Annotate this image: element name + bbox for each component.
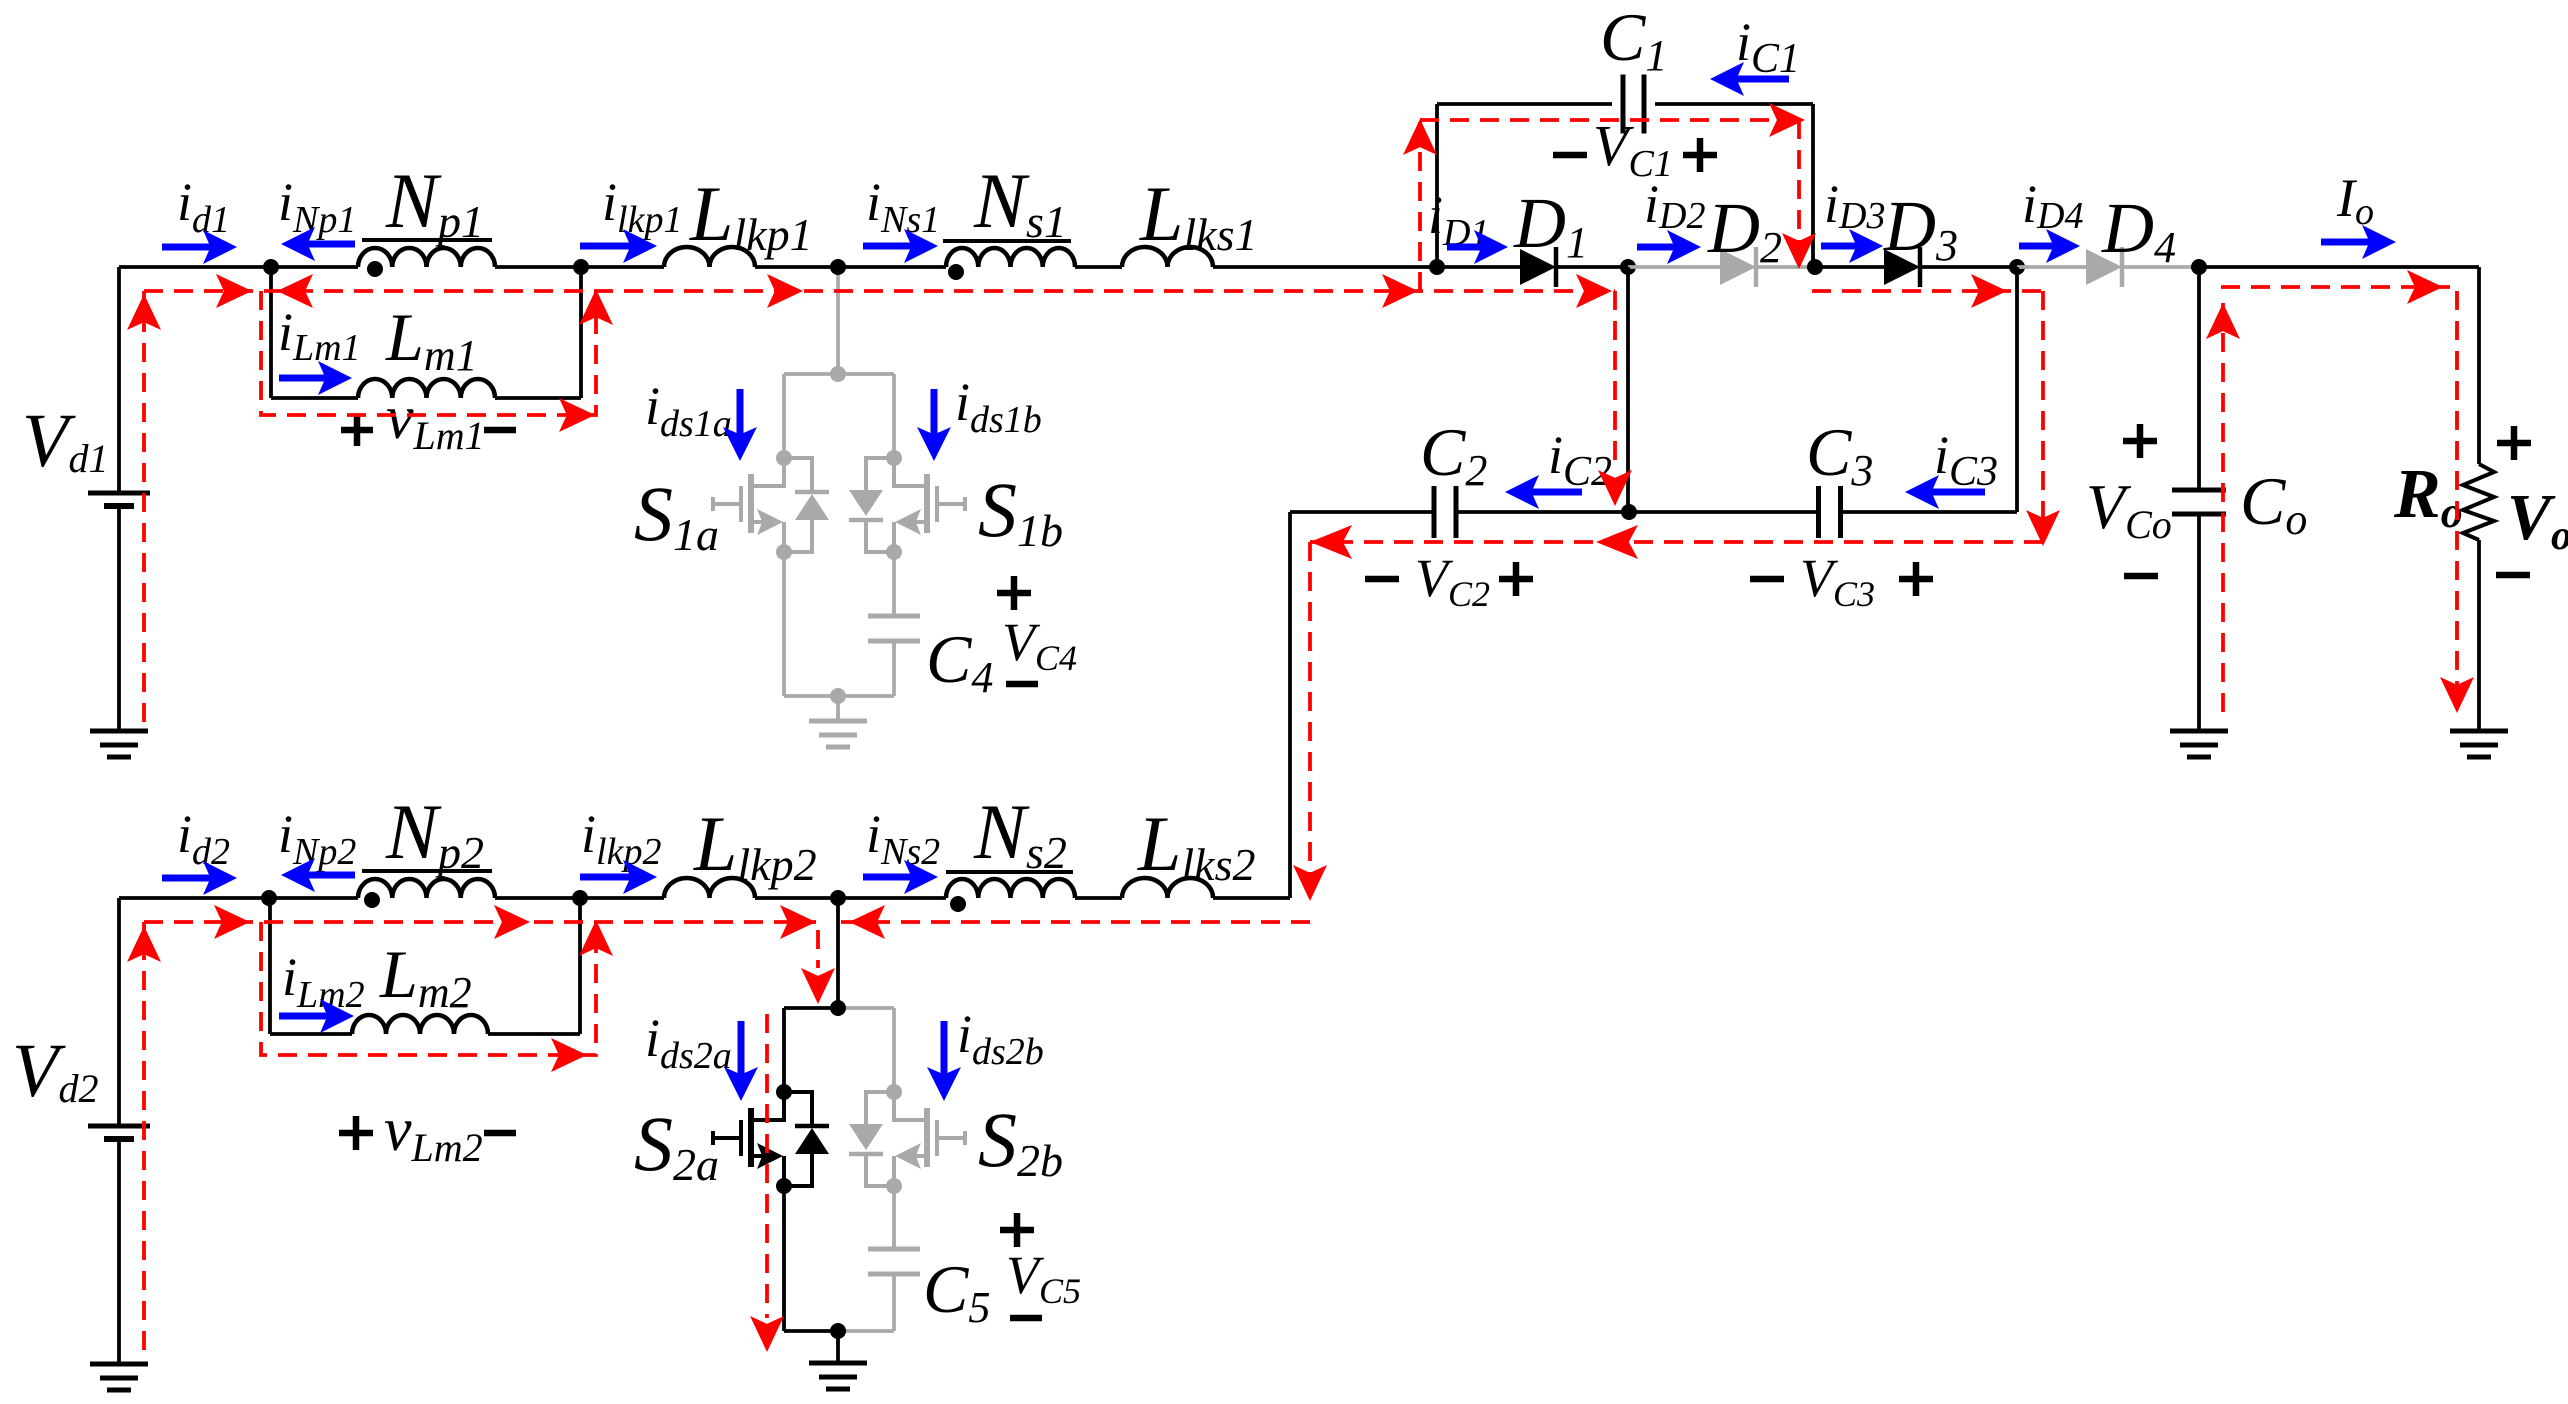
red path Co branch — [2221, 303, 2225, 723]
red path C1 left riser — [1418, 120, 1422, 291]
wire C5 to bottom (gray) — [892, 1274, 896, 1331]
blue arrow iNp1 — [281, 227, 355, 261]
junction bridge top S1 — [830, 366, 846, 382]
label iC2 — [1548, 425, 1612, 495]
resistor Ro — [2463, 464, 2494, 540]
ground (S2 leg) — [809, 1363, 867, 1389]
blue arrow ids2a — [724, 1021, 758, 1101]
label Co — [2240, 463, 2307, 544]
label id2 — [177, 804, 230, 873]
wire S2a drain lead — [782, 1008, 786, 1092]
wire Ns2 to Llks2 — [1075, 896, 1122, 900]
wire Lm2 branch left — [268, 898, 272, 1034]
red path C1 right drop — [1797, 120, 1801, 265]
wire Llks2 to corner — [1213, 896, 1290, 900]
label ids2a — [645, 1008, 732, 1077]
label Ns1 — [973, 157, 1067, 247]
label C1 — [1600, 0, 1667, 80]
label S1b — [978, 466, 1063, 556]
wire C1 loop top left — [1437, 102, 1612, 106]
label VC3 minus — [1750, 576, 1784, 583]
red path S2 entry — [816, 930, 820, 968]
label S2a — [634, 1100, 719, 1190]
blue arrow ids2b — [927, 1021, 961, 1101]
wire S1b drain lead — [892, 374, 896, 458]
label C2 — [1420, 414, 1487, 495]
core bar Np1 — [362, 238, 492, 242]
blue arrow iD4 — [2019, 229, 2080, 263]
label id1 — [177, 172, 230, 241]
wire to ground S2 — [836, 1331, 840, 1363]
core bar Ns2 — [946, 870, 1073, 874]
label iNp1 — [278, 172, 356, 241]
wire Vd2 positive lead — [117, 898, 121, 1126]
red path node5 to node6 — [1812, 289, 2043, 293]
label Vd1 — [22, 399, 108, 483]
junction node1b — [261, 890, 277, 906]
capacitor C5 — [868, 1249, 920, 1274]
red arrowhead brail right 3 — [780, 905, 816, 939]
label D1 — [1513, 183, 1588, 267]
transistor S1a — [713, 458, 829, 552]
junction node1 — [263, 259, 279, 275]
red arrowhead node6 down — [2026, 510, 2060, 546]
label VC5 minus — [1010, 1315, 1042, 1322]
red arrowhead brail right 2 — [494, 905, 530, 939]
wire node4 down — [1626, 267, 1630, 512]
label iLm2 — [282, 947, 365, 1016]
wire C1 loop left — [1435, 104, 1439, 267]
leakage inductor Llkp2 — [664, 878, 755, 898]
capacitor Co — [2172, 490, 2226, 514]
label vLm1 plus — [341, 414, 373, 446]
capacitor C2 — [1434, 486, 1456, 538]
voltage source Vd2 — [88, 1126, 150, 1139]
transistor S1b — [849, 458, 965, 552]
core bar Np2 — [362, 869, 492, 873]
junction node3 — [830, 259, 846, 275]
label vLm2 — [384, 1096, 483, 1170]
wire node3 to bridge (gray) — [836, 267, 840, 374]
junction S2b source — [886, 1178, 902, 1194]
wire Ro branch upper — [2477, 267, 2481, 464]
label iNs2 — [866, 804, 940, 873]
winding Ns1 — [946, 248, 1075, 267]
diode D2 (gray) — [1720, 247, 1756, 287]
label iD2 — [1644, 174, 1705, 237]
label Llks1 — [1139, 170, 1258, 260]
red arrowhead S2a down — [750, 1316, 784, 1352]
red arrowhead rail right C1 — [1382, 274, 1418, 308]
label vLm1 minus — [484, 427, 516, 434]
junction node4 — [1620, 259, 1636, 275]
label iNp2 — [278, 804, 356, 873]
junction node5 — [1807, 259, 1823, 275]
red arrowhead rail left 1 — [277, 274, 313, 308]
blue arrow iC2 — [1505, 475, 1582, 509]
label VC3 — [1800, 548, 1875, 614]
label iD4 — [2022, 174, 2083, 237]
wire Np1 to Llkp1 — [495, 265, 664, 269]
label D2 — [1707, 188, 1782, 272]
wire bridge top right S2 (gray) — [838, 1006, 894, 1010]
junction S1a drain — [776, 450, 792, 466]
red path Vd2 riser — [142, 922, 146, 1350]
wire C2 row to bottom rail — [1288, 512, 1292, 898]
red path node6 drop — [2041, 291, 2045, 540]
label VC2 — [1415, 548, 1490, 614]
label vLm2 plus — [339, 1116, 373, 1150]
wire Lm1 branch right — [579, 267, 583, 398]
label S1a — [634, 470, 719, 560]
blue arrow id1 — [162, 230, 237, 264]
diode D3 — [1884, 247, 1920, 287]
wire Co branch lower — [2197, 514, 2201, 731]
red arrowhead output down — [2440, 677, 2474, 713]
label iC1 — [1736, 12, 1800, 82]
red arrowhead vLm1 right — [559, 398, 595, 432]
polarity dot Ns1 — [948, 264, 964, 280]
wire S1b source to C4 — [892, 552, 896, 616]
red arrowhead vLm2 right — [551, 1038, 587, 1072]
red arrowhead S2 entry down — [801, 968, 835, 1004]
label Np1 — [385, 157, 484, 247]
ground (Ro) — [2450, 731, 2508, 757]
wire D3 to node6 — [1919, 265, 2017, 269]
red path vLm2 loop — [261, 922, 596, 1055]
label ids2b — [957, 1004, 1044, 1073]
label vLm1 — [386, 384, 485, 458]
wire bridge bottom (gray) — [784, 694, 894, 698]
wire bridge top left S2 (black) — [784, 1006, 838, 1010]
junction S2a drain — [776, 1084, 792, 1100]
red arrowhead row down — [1293, 865, 1327, 901]
label VC5 plus — [1000, 1213, 1034, 1247]
winding Np1 — [358, 248, 495, 267]
blue arrow iLm1 — [279, 361, 352, 395]
label VC3 plus — [1899, 562, 1933, 596]
red arrowhead row left 1 — [1596, 525, 1638, 559]
red arrowhead Vd2 up — [127, 926, 161, 962]
wire C4 to bottom — [892, 641, 896, 696]
wire top rail input — [119, 265, 358, 269]
wire Lm1 bottom right — [495, 396, 581, 400]
red path C1 top — [1420, 118, 1800, 122]
label iD3 — [1824, 174, 1885, 237]
transistor S2a — [713, 1092, 829, 1186]
ground (Co) — [2170, 731, 2228, 757]
transistor S2b — [849, 1092, 965, 1186]
junction S1b drain — [886, 450, 902, 466]
label Vo minus — [2496, 572, 2530, 579]
magnetizing inductor Lm2 — [352, 1015, 488, 1034]
red path Vd1 riser — [142, 291, 146, 722]
red arrowhead Vd1 up — [127, 294, 161, 330]
label VC2 minus — [1365, 576, 1399, 583]
blue arrow ids1a — [723, 389, 757, 461]
label ilkp2 — [581, 804, 661, 873]
junction node2b — [572, 890, 588, 906]
red arrowhead Co up — [2206, 303, 2240, 339]
wire C2 row left — [1290, 510, 1434, 514]
red arrowhead brail right 1 — [214, 905, 250, 939]
wire bridge bottom left S2 (black) — [784, 1329, 838, 1333]
wire Ns1 to Llks1 — [1075, 265, 1122, 269]
label ilkp1 — [602, 172, 682, 241]
label Ro — [2393, 456, 2463, 537]
red arrowhead C1 right — [1769, 103, 1805, 137]
label VC1 minus — [1553, 152, 1587, 159]
label Ns2 — [973, 788, 1067, 878]
label S2b — [978, 1096, 1063, 1186]
label iLm1 — [278, 302, 361, 369]
wire Llkp1 to Ns1 — [755, 265, 946, 269]
junction node2 — [573, 259, 589, 275]
wire D1 to node4 — [1556, 265, 1628, 269]
label VC1 — [1593, 113, 1673, 185]
junction S2a source — [776, 1178, 792, 1194]
polarity dot Np1 — [367, 261, 383, 277]
blue arrow iD1 — [1447, 230, 1508, 264]
label vLm2 minus — [484, 1130, 516, 1137]
blue arrow iLm2 — [279, 999, 354, 1033]
junction node3b — [830, 890, 846, 906]
label Llkp2 — [693, 800, 817, 890]
leakage inductor Llks1 — [1122, 247, 1213, 267]
wire Llkp2 to Ns2 — [755, 896, 946, 900]
label Lm2 — [379, 936, 472, 1017]
winding Ns2 — [946, 879, 1075, 898]
diode D4 (gray) — [2086, 247, 2122, 287]
red arrowhead rail right 2 — [767, 274, 803, 308]
label VCo — [2086, 471, 2172, 547]
diode D1 — [1520, 247, 1556, 287]
label VC4 plus — [997, 576, 1031, 610]
capacitor C3 — [1819, 486, 1841, 538]
junction node7 — [2191, 259, 2207, 275]
wire node3b to bridge — [836, 898, 840, 1008]
capacitor C1 — [1623, 75, 1644, 134]
junction bridge bottom S2 — [830, 1323, 846, 1339]
label C5 — [923, 1251, 990, 1332]
junction S1b source — [886, 544, 902, 560]
blue arrow iD2 — [1637, 230, 1701, 264]
wire node4 to D2 (gray) — [1628, 265, 1720, 269]
ground (S1 leg) — [809, 721, 867, 747]
red path row drop — [1308, 542, 1312, 898]
blue arrow ids1b — [917, 389, 951, 461]
junction S2b drain — [886, 1084, 902, 1100]
wire S2b source to C5 (gray) — [892, 1186, 896, 1249]
wire bridge top (gray) — [784, 372, 894, 376]
blue arrow iNp2 — [281, 858, 355, 892]
red arrowhead output right — [2407, 270, 2443, 304]
wire bottom rail input — [119, 896, 358, 900]
label Vd2 — [12, 1029, 98, 1113]
polarity dot Ns2 — [950, 896, 966, 912]
red arrowhead vLm2 up — [579, 920, 613, 956]
capacitor C4 — [868, 616, 920, 641]
wire node6 to D4 (gray) — [2017, 265, 2086, 269]
wire Lm2 bottom right — [488, 1032, 580, 1036]
red path bottom rail right — [838, 920, 1310, 924]
wire node6 drop — [2015, 267, 2019, 512]
blue arrow ilkp2 — [580, 860, 657, 894]
junction bridge top S2 — [830, 1000, 846, 1016]
red arrowhead rail right D1 — [1576, 274, 1612, 308]
wire C1 loop right — [1811, 104, 1815, 267]
wire C3 to corner — [1841, 510, 2017, 514]
red path bottom rail left — [144, 920, 816, 924]
wire Lm2 branch right — [578, 898, 582, 1034]
wire Lm2 bottom left — [270, 1032, 352, 1036]
red arrowhead row left 2 — [1310, 525, 1352, 559]
wire Vd2 negative lead — [117, 1139, 121, 1364]
label iNs1 — [866, 172, 940, 241]
wire Np2 to Llkp2 — [495, 896, 664, 900]
wire D2 to node5 (gray) — [1755, 265, 1815, 269]
junction bridge bottom S1 — [830, 688, 846, 704]
wire C2 to C3 — [1456, 510, 1818, 514]
red arrowhead C1 up — [1403, 119, 1437, 155]
junction node C2C3 — [1621, 504, 1637, 520]
wire to ground S1 — [836, 696, 840, 721]
red path output top — [2221, 287, 2457, 700]
ground (Vd1) — [90, 731, 148, 757]
wire bridge bottom right S2 (gray) — [838, 1329, 894, 1333]
red arrowhead vLm1 up — [579, 289, 613, 325]
label VC2 plus — [1499, 562, 1533, 596]
wire S1a source to bottom — [782, 552, 786, 696]
wire C1 loop top right — [1655, 102, 1813, 106]
label Np2 — [385, 788, 484, 878]
label Vo plus — [2497, 426, 2531, 460]
red path C3C2 row — [1310, 540, 2043, 544]
label D4 — [2101, 188, 2176, 272]
red path vLm1 loop — [261, 291, 596, 415]
label Vo — [2507, 481, 2568, 559]
polarity dot Np2 — [364, 892, 380, 908]
blue arrow ilkp1 — [580, 229, 657, 263]
ground (Vd2) — [90, 1364, 148, 1390]
label iD1 — [1428, 185, 1489, 254]
blue arrow iNs2 — [863, 860, 938, 894]
label ids1a — [645, 376, 732, 445]
label D3 — [1883, 186, 1958, 270]
blue arrow iC1 — [1710, 62, 1789, 96]
blue arrow id2 — [162, 861, 237, 895]
label C4 — [926, 621, 993, 702]
label Lm1 — [385, 299, 478, 380]
label VCo plus — [2123, 424, 2157, 458]
label ids1b — [955, 372, 1042, 441]
leakage inductor Llks2 — [1122, 878, 1213, 898]
wire Co branch upper — [2197, 267, 2201, 490]
wire Lm1 bottom left — [271, 396, 358, 400]
label VC4 — [1002, 612, 1077, 678]
blue arrow Io — [2321, 225, 2396, 259]
leakage inductor Llkp1 — [664, 247, 755, 267]
label Io — [2336, 168, 2374, 233]
junction S1a source — [776, 544, 792, 560]
wire D4 to node7 (gray) — [2122, 265, 2199, 269]
label iC3 — [1934, 425, 1998, 495]
wire Llks1 to D1 — [1213, 265, 1520, 269]
red arrowhead C1 down — [1782, 233, 1816, 269]
red path node4 drop — [1613, 291, 1617, 465]
red arrowhead node4 down — [1598, 470, 1632, 506]
label VC5 — [1006, 1245, 1081, 1311]
wire Ro branch lower — [2477, 540, 2481, 731]
wire Lm1 branch left — [269, 267, 273, 398]
red path S2a descent — [765, 1014, 769, 1318]
wire node7 to corner — [2199, 265, 2479, 269]
blue arrow iNs1 — [863, 229, 938, 263]
red arrowhead node6 right — [1971, 274, 2007, 308]
label VCo minus — [2124, 573, 2158, 580]
wire S1a drain lead — [782, 374, 786, 458]
label Llkp1 — [689, 170, 813, 260]
label VC4 minus — [1006, 681, 1038, 688]
blue arrow iC3 — [1905, 475, 1985, 509]
red path top rail — [144, 289, 1615, 293]
voltage source Vd1 — [88, 493, 150, 506]
winding Np2 — [358, 879, 495, 898]
junction node C1-left — [1429, 259, 1445, 275]
wire S2b drain lead (gray) — [892, 1008, 896, 1092]
wire Vd1 negative lead — [117, 506, 121, 731]
blue arrow iD3 — [1821, 229, 1883, 263]
wire Vd1 positive lead — [117, 267, 121, 493]
label VC1 plus — [1683, 138, 1717, 172]
wire S2a source to bottom — [782, 1186, 786, 1331]
label C3 — [1806, 414, 1873, 495]
magnetizing inductor Lm1 — [358, 379, 495, 398]
red arrowhead bottom left — [849, 905, 885, 939]
label Llks2 — [1137, 800, 1256, 890]
junction node6 — [2009, 259, 2025, 275]
red arrowhead rail right 1 — [216, 274, 252, 308]
core bar Ns1 — [943, 239, 1071, 243]
wire node5 to D3 — [1815, 265, 1884, 269]
